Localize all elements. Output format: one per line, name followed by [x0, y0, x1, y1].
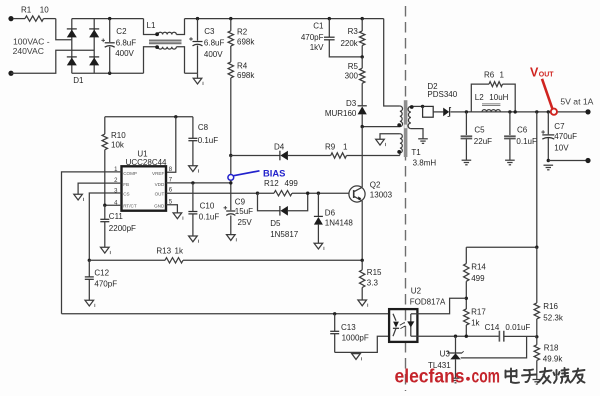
earth ground C7 [544, 164, 554, 166]
U2 phototransistor [410, 314, 412, 336]
ground C13 [352, 354, 361, 360]
svg-text:R17: R17 [471, 308, 486, 317]
output filter node wire [466, 111, 588, 113]
resistor R3 [361, 17, 364, 20]
U2 LED arrows [400, 323, 405, 329]
opto emitter wire [417, 335, 499, 337]
svg-text:5V at 1A: 5V at 1A [560, 97, 593, 107]
svg-text:22uF: 22uF [474, 137, 492, 146]
node C1/R3-R5 [361, 55, 364, 58]
VREF riser [174, 115, 177, 118]
svg-text:R15: R15 [367, 268, 382, 277]
svg-text:R18: R18 [544, 343, 559, 352]
svg-text:25V: 25V [238, 218, 253, 227]
T1 secondary bottom to earth [411, 129, 423, 139]
node emitter/R15 [361, 259, 364, 262]
svg-text:10k: 10k [111, 141, 125, 150]
svg-text:C11: C11 [109, 212, 124, 221]
node BIAS circle [228, 175, 234, 181]
L1 phase dot top [155, 32, 159, 36]
svg-text:15uF: 15uF [235, 207, 253, 216]
earth ground C6 [505, 159, 515, 161]
resistor R16 [536, 247, 538, 303]
capacitor C5 [465, 110, 468, 113]
bridge rectifier D1 left leg [71, 19, 73, 74]
svg-text:499: 499 [471, 274, 485, 283]
capacitor C11 [104, 205, 106, 219]
svg-text:C10: C10 [200, 202, 215, 211]
T1 primary winding [384, 19, 400, 106]
svg-text:R16: R16 [543, 302, 558, 311]
Vout red circle [551, 109, 557, 115]
ground FB [74, 194, 83, 200]
inductor L2 / R6 loop [471, 84, 489, 112]
bridge diode top-right [89, 28, 99, 30]
node clamp/collector [361, 125, 364, 128]
resistor R17 [464, 309, 469, 325]
node RT/CT R10 C11 [103, 204, 106, 207]
wire R4 to BIAS node [230, 78, 232, 156]
svg-text:C5: C5 [474, 126, 485, 135]
svg-text:10V: 10V [554, 143, 569, 152]
svg-text:49.9k: 49.9k [543, 355, 564, 364]
svg-text:C14: C14 [485, 323, 500, 332]
wire pin2 FB to ground [78, 183, 121, 194]
node C13 [333, 312, 336, 315]
wire pin3 CS [89, 193, 121, 260]
U3 ref wire [461, 336, 527, 358]
svg-text:499: 499 [285, 179, 299, 188]
BIAS leader line [234, 171, 260, 176]
svg-text:FOD817A: FOD817A [410, 298, 446, 307]
transformer T1 core [404, 100, 408, 157]
svg-text:elecfans: elecfans [395, 366, 465, 388]
svg-text:400V: 400V [115, 49, 134, 58]
HV- rail bridge to L1 [72, 72, 144, 74]
svg-text:T1: T1 [411, 148, 421, 157]
node R14 top [535, 246, 538, 249]
bridge diode bottom-right [89, 56, 99, 58]
wire VREF rail [105, 116, 193, 118]
svg-text:1kV: 1kV [310, 43, 324, 52]
node R12 right [306, 192, 309, 195]
diode D3 MUR160 [358, 105, 367, 107]
node R12 left [256, 192, 259, 195]
svg-text:C9: C9 [235, 197, 246, 206]
resistor R9 [331, 153, 347, 158]
wire BIAS to VDD/C9 [230, 180, 232, 210]
resistor R14 [465, 247, 467, 263]
svg-text:D3: D3 [346, 99, 357, 108]
resistor R18 [536, 337, 538, 345]
svg-text:OUT: OUT [155, 192, 165, 197]
wire D4 node to BIAS circle [230, 156, 232, 175]
capacitor C1 [328, 17, 331, 20]
svg-text:470uF: 470uF [554, 132, 577, 141]
wire pin8... VDD pin7 [166, 182, 231, 184]
T1 primary phase dot [397, 123, 401, 127]
earth ground U3 [452, 377, 460, 379]
svg-text:3.3: 3.3 [367, 279, 379, 288]
op-amp U1 box UCC28C44 [122, 166, 167, 210]
svg-text:470pF: 470pF [301, 33, 324, 42]
ground C10 [189, 236, 198, 242]
feedback riser from Vout [466, 112, 537, 247]
output terminal [585, 109, 590, 114]
svg-text:com: com [472, 366, 501, 388]
U2 LED [393, 314, 396, 321]
svg-text:10: 10 [40, 5, 49, 14]
output return wire [547, 159, 550, 162]
resistor R4 [230, 46, 232, 62]
T1 secondary phase dot [410, 105, 414, 109]
isolation dashed line [405, 6, 407, 391]
optocoupler U2 FOD817A box [389, 309, 417, 342]
ground C9 [227, 235, 236, 241]
svg-text:1N4148: 1N4148 [325, 219, 354, 228]
ground C8 [189, 166, 198, 172]
svg-text:L2: L2 [475, 93, 484, 102]
svg-text:C12: C12 [94, 268, 109, 277]
node R16/R18 [535, 335, 538, 338]
wire COMP rail to opto [62, 313, 390, 315]
Vout red leader [542, 79, 552, 109]
capacitor C14 [499, 331, 503, 342]
svg-text:400V: 400V [204, 50, 223, 59]
node U3 tap [454, 335, 457, 338]
svg-text:R10: R10 [111, 131, 126, 140]
svg-text:CS: CS [123, 192, 129, 197]
HV- rail L1 to C3 [185, 72, 198, 74]
svg-text:C6: C6 [517, 126, 528, 135]
svg-text:C13: C13 [341, 323, 356, 332]
earth ground secondary [418, 138, 428, 140]
output return terminal [585, 158, 590, 163]
capacitor C9 [230, 216, 232, 235]
diode D4 [231, 155, 280, 157]
svg-text:PDS340: PDS340 [427, 90, 457, 99]
svg-text:GND: GND [154, 203, 165, 208]
watermark chinese characters [510, 369, 512, 383]
wire pin5 GND [166, 205, 177, 213]
svg-text:COMP: COMP [123, 171, 137, 176]
ground C11 [101, 247, 110, 253]
svg-text:L1: L1 [147, 21, 156, 30]
node R4/D4 [229, 154, 232, 157]
svg-text:C2: C2 [116, 27, 127, 36]
ground R15 [358, 300, 367, 306]
wire pin6 OUT [166, 192, 258, 194]
svg-text:240VAC: 240VAC [13, 46, 44, 56]
svg-text:1: 1 [500, 71, 505, 80]
node R17 bottom [465, 335, 468, 338]
svg-text:C8: C8 [198, 123, 209, 132]
wire pin4 RT/CT [105, 204, 122, 206]
svg-text:VDD: VDD [155, 182, 165, 187]
svg-text:698k: 698k [237, 37, 255, 46]
L1 phase dot bottom [155, 45, 159, 49]
inductor L1 top winding [144, 19, 159, 35]
earth ground R18 [533, 379, 542, 381]
svg-text:C1: C1 [313, 22, 324, 31]
transistor Q2 13003 [349, 186, 365, 202]
earth ground C5 [462, 159, 472, 161]
wire input top to bridge [56, 19, 72, 40]
node Vout feedback [535, 110, 538, 113]
svg-text:1k: 1k [175, 247, 184, 256]
wire Q2 collector [361, 127, 363, 188]
T1 aux phase dot [397, 150, 401, 154]
capacitor C8 [192, 117, 194, 138]
diode D5 parallel path [258, 193, 280, 211]
svg-text:R6: R6 [484, 71, 495, 80]
bridge diode bottom-left [67, 56, 77, 58]
svg-text:R3: R3 [348, 27, 359, 36]
svg-text:470pF: 470pF [94, 279, 117, 288]
capacitor C13 [334, 314, 336, 331]
resistor R2 [229, 17, 232, 20]
svg-text:C3: C3 [204, 27, 215, 36]
svg-text:3.8mH: 3.8mH [413, 159, 437, 168]
U2 pin stubs [411, 313, 418, 315]
svg-text:MUR160: MUR160 [325, 109, 357, 118]
svg-text:BIAS: BIAS [263, 167, 285, 178]
svg-text:1N5817: 1N5817 [270, 230, 299, 239]
input terminal top [8, 16, 13, 21]
ground D6 [314, 243, 323, 249]
bridge diode top-left [67, 28, 77, 30]
node CS/C12/R13 [88, 259, 91, 262]
T1 aux winding [380, 134, 400, 140]
inductor L2 coil [482, 110, 500, 112]
diode D6 1N4148 [317, 192, 320, 195]
svg-text:698k: 698k [237, 71, 255, 80]
C13 bottom wire to opto [335, 336, 389, 352]
svg-text:300: 300 [345, 71, 359, 80]
wire Q2 emitter [361, 201, 363, 260]
opto collector wire to divider [417, 298, 466, 314]
svg-text:UCC28C44: UCC28C44 [126, 158, 167, 167]
svg-text:1: 1 [343, 143, 348, 152]
capacitor C12 [88, 260, 90, 277]
svg-text:D5: D5 [270, 219, 281, 228]
svg-text:R9: R9 [325, 143, 336, 152]
svg-text:RT/CT: RT/CT [123, 203, 137, 208]
svg-text:6.8uF: 6.8uF [116, 38, 137, 47]
svg-text:R1: R1 [21, 5, 32, 14]
svg-text:R4: R4 [237, 61, 248, 70]
svg-text:1k: 1k [471, 319, 480, 328]
svg-text:6.8uF: 6.8uF [204, 39, 225, 48]
svg-text:V: V [530, 65, 539, 79]
ground aux winding [376, 139, 385, 145]
svg-text:R12: R12 [264, 179, 279, 188]
svg-text:OUT: OUT [539, 72, 555, 79]
svg-text:Q2: Q2 [370, 181, 381, 190]
svg-text:C7: C7 [554, 122, 565, 131]
node R14/R17/opto [465, 297, 468, 300]
L1 core bars [149, 40, 182, 42]
ground U1 GND pin [173, 213, 182, 219]
capacitor C10 [191, 181, 194, 184]
HV+ rail bridge to L1 [72, 18, 144, 20]
capacitor C3 [196, 17, 199, 20]
svg-text:R14: R14 [471, 262, 486, 271]
svg-text:R2: R2 [237, 28, 248, 37]
svg-text:FB: FB [123, 182, 129, 187]
svg-text:VREF: VREF [152, 171, 164, 176]
svg-text:0.1uF: 0.1uF [198, 136, 219, 145]
svg-text:0.1uF: 0.1uF [516, 137, 537, 146]
resistor R12 [258, 192, 275, 194]
capacitor C2 [108, 17, 111, 20]
resistor R10 [102, 134, 107, 150]
svg-text:U3: U3 [440, 350, 451, 359]
svg-text:1000pF: 1000pF [342, 334, 369, 343]
svg-text:2200pF: 2200pF [109, 224, 136, 233]
capacitor C7 [547, 110, 550, 113]
svg-text:52.3k: 52.3k [543, 314, 564, 323]
svg-text:R13: R13 [156, 247, 171, 256]
resistor R1 [13, 18, 25, 20]
svg-text:U2: U2 [411, 286, 422, 295]
wire input bottom to bridge [11, 50, 94, 73]
HV+ rail L1 to transformer [185, 18, 384, 20]
input terminal bottom [8, 71, 13, 76]
resistor R15 [361, 260, 363, 270]
resistor R13 [89, 259, 165, 261]
svg-text:0.01uF: 0.01uF [505, 323, 530, 332]
shunt regulator U3 TL431 [455, 336, 457, 353]
svg-text:R5: R5 [348, 62, 359, 71]
svg-text:3: 3 [114, 189, 118, 195]
wire pin1 COMP feedback [62, 172, 122, 314]
ground C3 (primary return) [197, 73, 199, 78]
svg-text:D4: D4 [274, 143, 285, 152]
capacitor C6 [508, 110, 511, 113]
resistor R5 [361, 57, 363, 68]
ground C12 [85, 300, 94, 306]
svg-text:10uH: 10uH [489, 93, 508, 102]
inductor L1 bottom winding [144, 47, 159, 73]
svg-text:220k: 220k [340, 39, 358, 48]
svg-text:13003: 13003 [370, 191, 393, 200]
svg-text:D1: D1 [73, 76, 84, 85]
bridge D1 right leg [93, 19, 95, 74]
svg-text:0.1uF: 0.1uF [199, 212, 220, 221]
T1 secondary winding [408, 106, 411, 128]
diode D2 PDS340 package [421, 105, 424, 108]
svg-text:D6: D6 [325, 208, 336, 217]
